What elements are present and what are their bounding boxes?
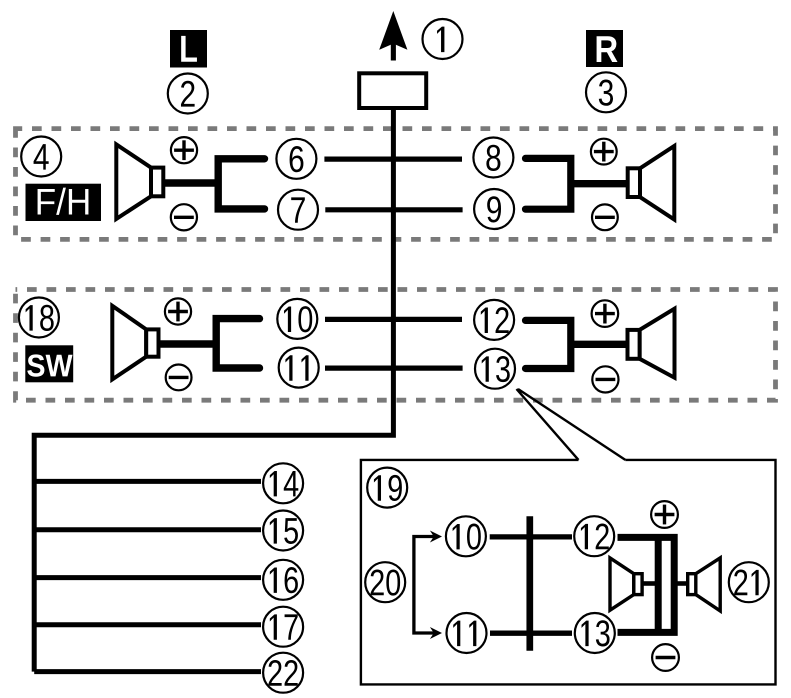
antenna connector [359, 73, 426, 108]
front-right - terminal [592, 204, 618, 230]
right channel label R [586, 30, 623, 67]
inset left speaker [610, 558, 642, 610]
wire: front-left branch to leads 6/7 [218, 159, 264, 209]
label 19 inset note [367, 468, 407, 508]
inset + terminal [651, 501, 678, 528]
front-left - terminal [171, 204, 197, 230]
inset lead 11 [447, 613, 487, 653]
lead 15 [263, 511, 303, 551]
label 21 dual voice coil subwoofer [729, 562, 769, 602]
inset lead 12 [574, 516, 614, 556]
lead 11 subwoofer-left - [279, 348, 319, 388]
front/high speakers dashed box [16, 129, 776, 240]
subwoofer speakers dashed box [16, 290, 776, 401]
lead 8 front-right + [473, 138, 513, 178]
inset lead 10 [446, 516, 486, 556]
label 2 left leads [168, 74, 208, 114]
lead 9 front-right - [474, 189, 514, 229]
antenna arrow 1 [379, 11, 407, 61]
lead 17 [263, 607, 303, 647]
wire: lead 14 branch [34, 479, 261, 484]
inset - terminal [652, 644, 679, 671]
lead 12 subwoofer-right + [474, 300, 514, 340]
subwoofer-right - terminal [592, 366, 618, 392]
subwoofer-left - terminal [166, 365, 192, 391]
wire: front-left speaker feed [164, 179, 218, 186]
inset detail box [361, 460, 776, 685]
front-right + terminal [591, 139, 617, 165]
front-left + terminal [171, 137, 197, 163]
arrow bracket for 20 [414, 531, 442, 640]
label 4 front-high group [21, 137, 61, 177]
wire: inset right speaker feed [677, 581, 688, 586]
lead 7 front-left - [278, 190, 318, 230]
lead 6 front-left + [276, 139, 316, 179]
wire: inset speaker bus [618, 537, 675, 632]
wire: subwoofer-left branch to leads 10/11 [216, 319, 259, 368]
inset right speaker [688, 558, 721, 611]
wire: lead 17 branch [34, 622, 261, 627]
wire: lead 22 branch [34, 669, 261, 674]
lead 14 [263, 463, 303, 503]
lead 10 subwoofer-left + [277, 299, 317, 339]
wire: front-right speaker feed [570, 180, 627, 187]
wire: lead 10 to lead 12 [325, 317, 462, 322]
label 3 right leads [586, 72, 626, 112]
left channel label L [170, 30, 207, 68]
subwoofer-right speaker [628, 309, 675, 378]
wire: lead 11 to lead 13 [325, 366, 463, 371]
connector boundary crossing line [526, 516, 533, 651]
wire: front-right branch from leads 8/9 [526, 158, 571, 209]
wire: subwoofer-right speaker feed [570, 341, 627, 348]
lead 13 subwoofer-right - [475, 349, 515, 389]
lead 22 [263, 653, 303, 693]
F/H label box [26, 184, 102, 221]
wire: antenna lead down / harness trunk [34, 109, 393, 672]
wire: inset left speaker feed [643, 581, 657, 586]
wire: inset 10 to 12 [490, 534, 572, 539]
front-right speaker [628, 146, 675, 220]
lead 16 [263, 560, 303, 600]
wire: inset 11 to 13 [490, 631, 572, 636]
wire: lead 15 branch [34, 527, 261, 532]
front-left speaker [116, 144, 163, 219]
wire: inset inner bus bar [655, 537, 662, 632]
SW label box [25, 345, 73, 382]
wire: lead 6 to lead 8 [324, 157, 462, 162]
wire: lead 16 branch [34, 575, 261, 580]
callout pointer lines from lead 13 [517, 389, 626, 460]
label 18 subwoofer group [19, 298, 59, 338]
wire: subwoofer-left speaker feed [159, 340, 216, 347]
wire: lead 7 to lead 9 [325, 207, 462, 212]
inset lead 13 [575, 613, 615, 653]
subwoofer-left speaker [112, 306, 158, 380]
wire: subwoofer-right branch from leads 12/13 [526, 320, 571, 368]
subwoofer-right + terminal [592, 300, 619, 327]
label 1 antenna [423, 19, 463, 59]
subwoofer-left + terminal [165, 298, 191, 324]
label 20 lead pair note [365, 562, 405, 602]
